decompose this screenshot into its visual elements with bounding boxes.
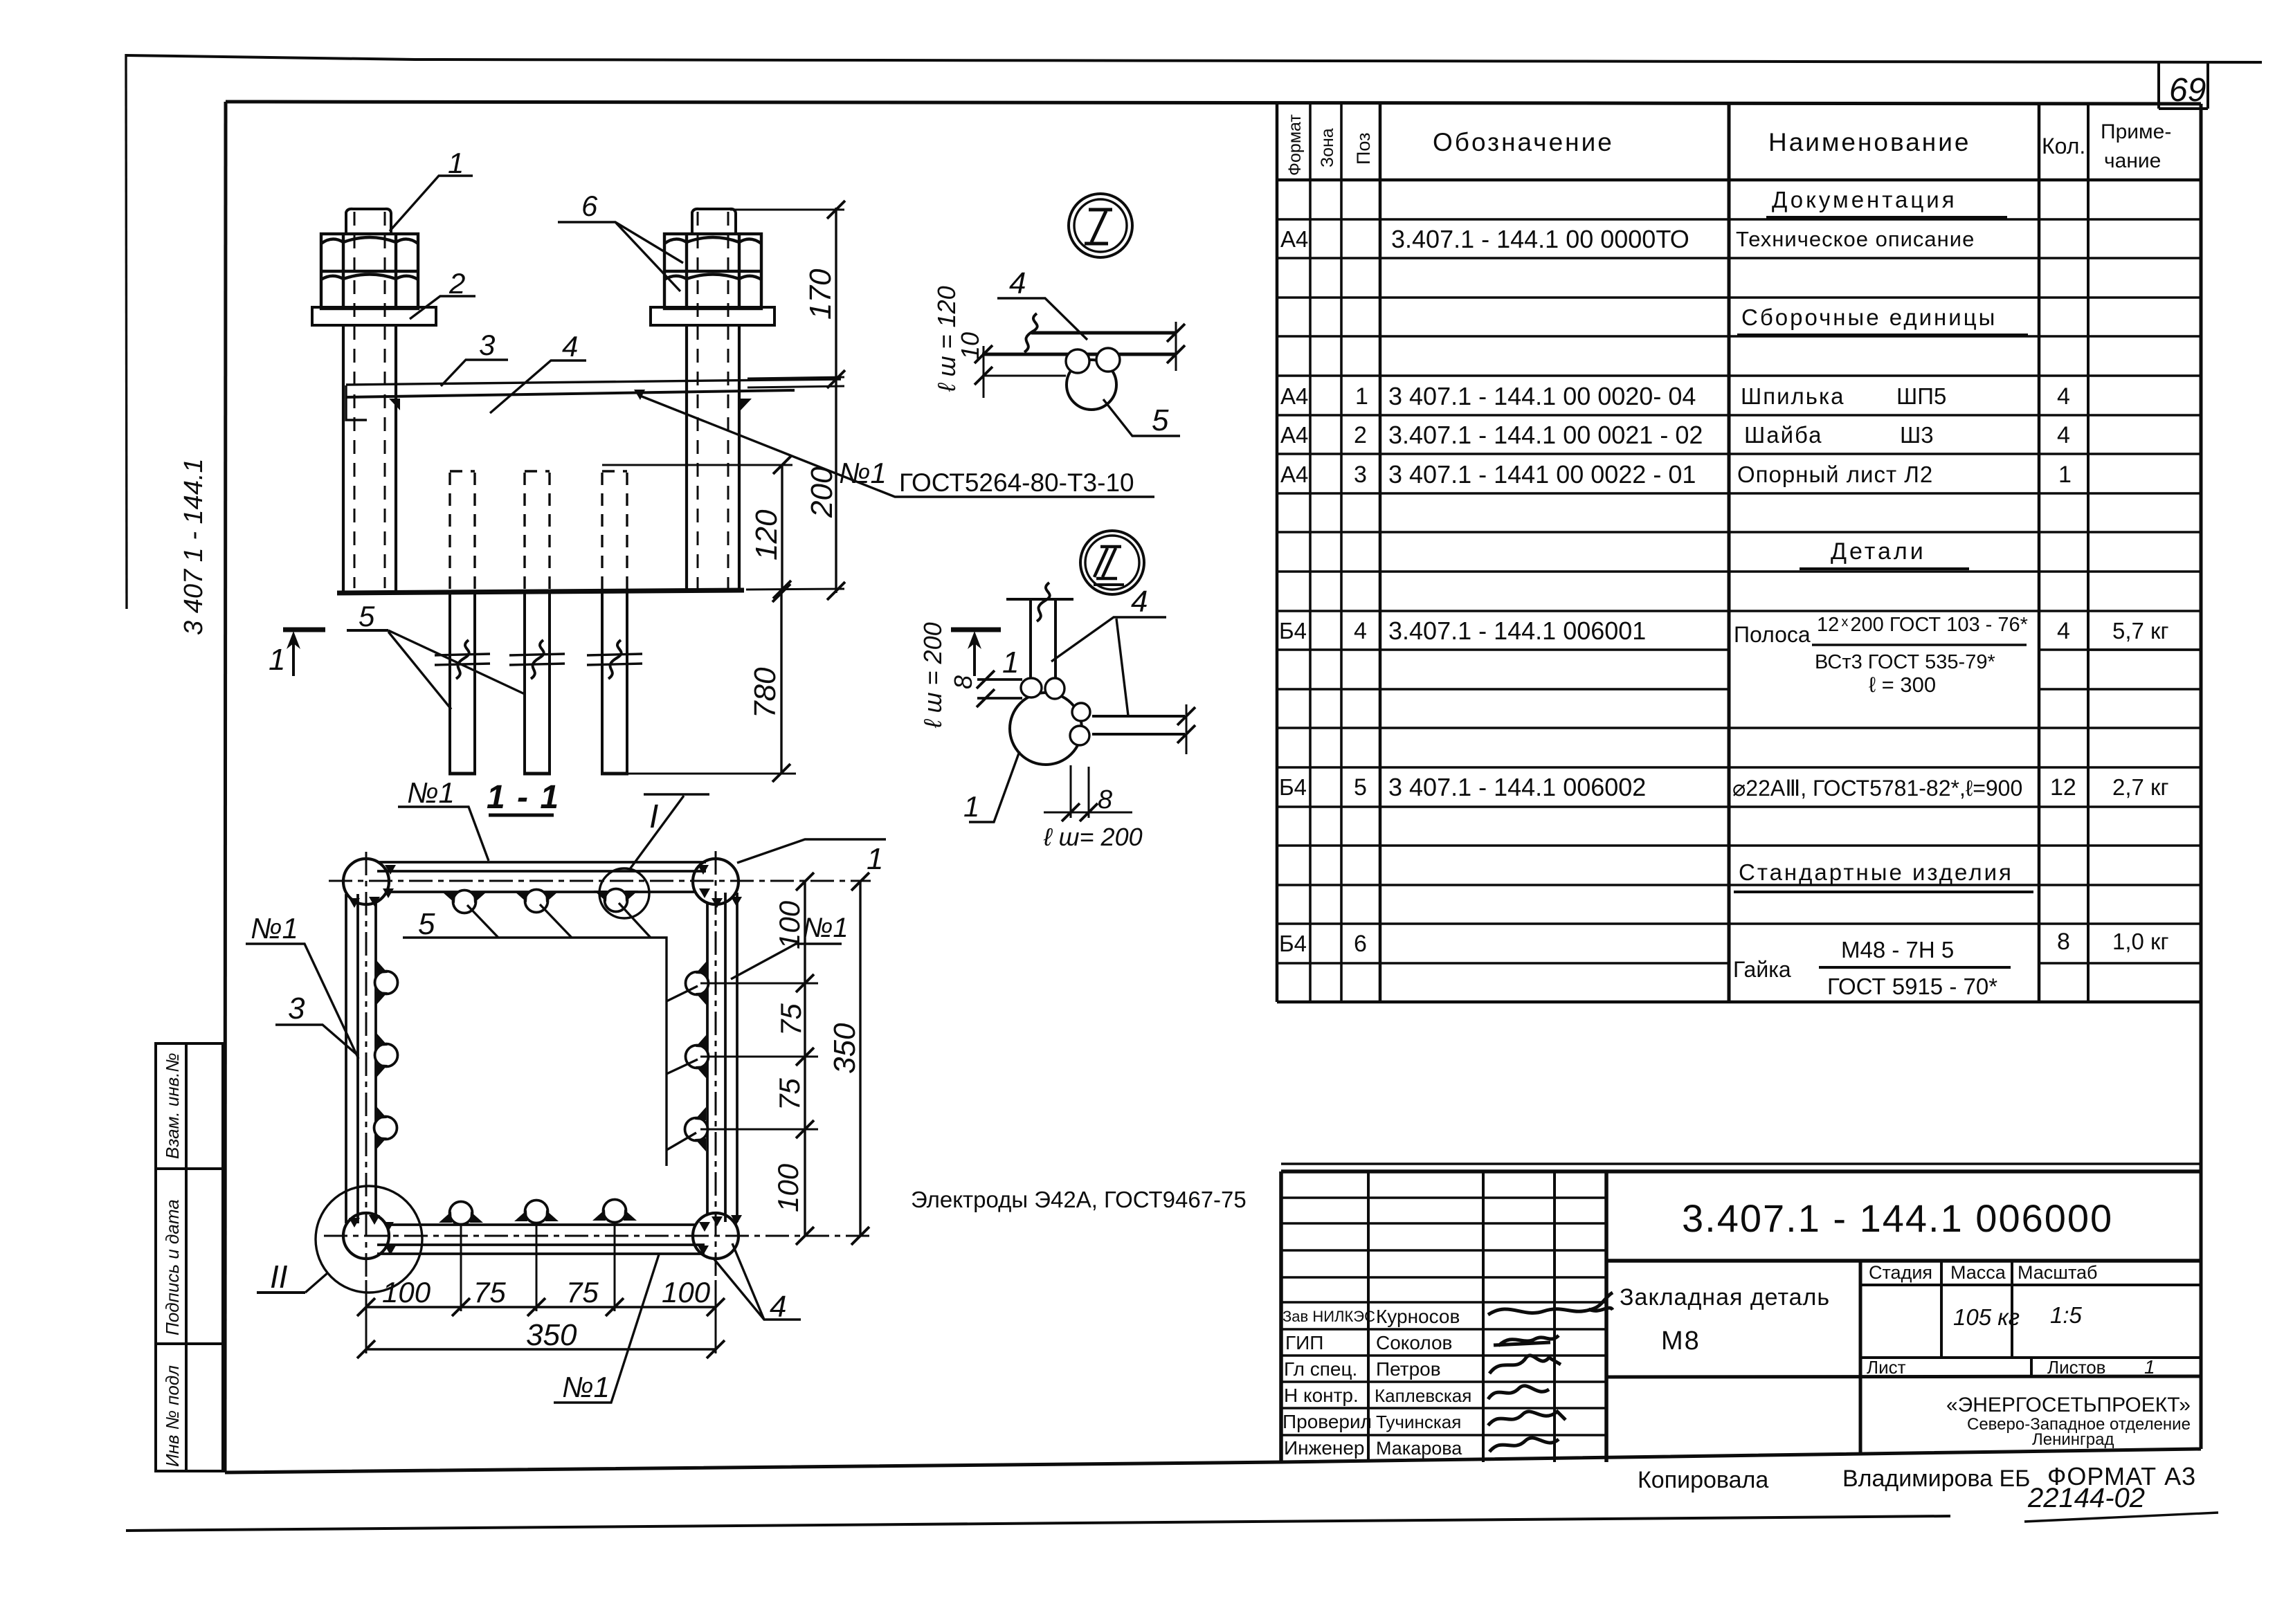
svg-text:Лист: Лист [1867, 1357, 1906, 1378]
svg-text:Н контр.: Н контр. [1284, 1385, 1359, 1406]
svg-text:1: 1 [1355, 383, 1368, 410]
detail II right strip [1092, 716, 1185, 734]
svg-text:Техническое описание: Техническое описание [1736, 227, 1975, 251]
svg-text:Электроды Э42А, ГОСТ9467-75: Электроды Э42А, ГОСТ9467-75 [911, 1187, 1247, 1212]
svg-text:II: II [270, 1259, 288, 1295]
detail II weld beads [1021, 678, 1090, 745]
svg-text:Копировала: Копировала [1638, 1467, 1768, 1493]
anchor circles plan left column [375, 960, 398, 1005]
ext line rod top level [602, 464, 792, 466]
svg-text:12: 12 [2050, 774, 2076, 801]
svg-text:I: I [649, 799, 658, 835]
svg-text:100: 100 [772, 1163, 804, 1212]
plan axes dash-dot [324, 851, 871, 1280]
svg-text:1:5: 1:5 [2050, 1302, 2083, 1328]
svg-text:Петров: Петров [1376, 1358, 1441, 1380]
svg-text:100: 100 [382, 1276, 431, 1308]
svg-text:чание: чание [2104, 149, 2161, 172]
svg-text:Ш3: Ш3 [1900, 422, 1934, 448]
anchor circles plan right column [686, 961, 709, 1005]
svg-text:75: 75 [473, 1276, 506, 1308]
svg-text:1: 1 [1002, 646, 1019, 679]
svg-text:1: 1 [2144, 1356, 2155, 1378]
detail circle II on plan [316, 1186, 422, 1293]
stud 2 shaft right [687, 325, 739, 592]
left strip (polosa) plan [346, 894, 376, 1223]
svg-text:5: 5 [359, 600, 375, 632]
anchor circles plan bottom row [439, 1202, 483, 1225]
svg-text:4: 4 [2057, 383, 2070, 410]
svg-text:Наименование: Наименование [1768, 128, 1971, 156]
detail I left extension [983, 346, 985, 398]
right dim extension lines [700, 983, 818, 1129]
stud 1 shaft left [343, 325, 396, 592]
svg-text:100: 100 [662, 1276, 711, 1308]
weld triangle under sheet at stud1 [389, 399, 400, 410]
anchor rod 2 below plate [523, 593, 551, 774]
svg-text:Шпилька: Шпилька [1741, 383, 1845, 409]
svg-text:3.407.1 - 144.1 00 0000ТО: 3.407.1 - 144.1 00 0000ТО [1391, 225, 1689, 253]
washer right (pos 2) [651, 307, 774, 325]
svg-text:3: 3 [479, 329, 495, 361]
svg-text:ГОСТ5264-80-Т3-10: ГОСТ5264-80-Т3-10 [899, 468, 1134, 497]
detail I rod circle [1067, 360, 1116, 410]
detail II top-left dim 8 lines [977, 679, 1022, 698]
svg-text:Шайба: Шайба [1744, 422, 1823, 448]
svg-text:75: 75 [773, 1078, 806, 1111]
svg-text:Взам. инв.№: Взам. инв.№ [162, 1052, 183, 1159]
corner stud circles [343, 859, 738, 1259]
svg-text:4: 4 [1354, 618, 1367, 644]
svg-text:75: 75 [774, 1003, 807, 1036]
detail I flag [630, 794, 709, 869]
title block outline [1281, 1164, 2201, 1462]
svg-text:Стандартные изделия: Стандартные изделия [1739, 859, 2013, 885]
svg-text:Б4: Б4 [1279, 774, 1307, 800]
svg-text:8: 8 [1098, 785, 1112, 814]
svg-text:6: 6 [1354, 931, 1367, 957]
svg-text:Масштаб: Масштаб [2018, 1262, 2098, 1283]
svg-text:Инженер: Инженер [1284, 1437, 1365, 1459]
svg-text:3.407.1 - 144.1 006001: 3.407.1 - 144.1 006001 [1388, 617, 1646, 645]
svg-text:5: 5 [1152, 403, 1169, 437]
dim column 100 75 75 100 right [804, 882, 806, 1236]
frame bottom bold line [337, 590, 744, 593]
ext lines sheet level [747, 377, 844, 378]
svg-text:А4: А4 [1280, 226, 1308, 252]
svg-text:ℓ ш= 200: ℓ ш= 200 [1043, 823, 1143, 851]
svg-text:«ЭНЕРГОСЕТЬПРОЕКТ»: «ЭНЕРГОСЕТЬПРОЕКТ» [1946, 1394, 2191, 1416]
svg-text:2,7 кг: 2,7 кг [2112, 774, 2169, 800]
weld triangle under sheet at stud2 [741, 399, 752, 410]
dim 350 right [859, 882, 861, 1236]
ext line stud top [730, 209, 844, 211]
signatures squiggles [1488, 1293, 1613, 1452]
svg-text:1: 1 [963, 790, 979, 823]
svg-text:200: 200 [805, 466, 839, 518]
svg-text:№1: №1 [803, 913, 849, 943]
svg-text:105 кг: 105 кг [1953, 1304, 2020, 1330]
outer page border left [126, 54, 127, 609]
svg-text:№1: №1 [839, 457, 887, 489]
svg-text:Тучинская: Тучинская [1376, 1412, 1461, 1432]
svg-text:Закладная деталь: Закладная деталь [1620, 1284, 1830, 1311]
top strip (polosa) plan [377, 862, 706, 892]
svg-text:ГИП: ГИП [1285, 1332, 1323, 1353]
svg-text:Масса: Масса [1950, 1262, 2006, 1283]
svg-text:Ленинград: Ленинград [2032, 1430, 2114, 1449]
sheet number box [2159, 62, 2208, 109]
svg-text:Поз: Поз [1353, 133, 1374, 165]
svg-text:Формат: Формат [1285, 114, 1305, 176]
svg-text:6: 6 [581, 190, 598, 222]
section mark 1 left [283, 628, 325, 632]
svg-text:1: 1 [2058, 462, 2072, 488]
svg-text:4: 4 [562, 330, 578, 363]
svg-text:Обозначение: Обозначение [1433, 128, 1614, 156]
right strip (polosa) plan [707, 893, 737, 1222]
outer page border top [126, 55, 2262, 62]
DETAIL II mark circle [1080, 531, 1144, 594]
stud 1 thread dashed [354, 212, 385, 588]
svg-text:2: 2 [1354, 422, 1367, 448]
corner weld marks [349, 865, 742, 1255]
svg-text:М48 - 7Н 5: М48 - 7Н 5 [1841, 937, 1954, 962]
anchor rod 1 hidden part [450, 471, 475, 590]
detail I right extension [1175, 322, 1177, 371]
support sheet (pos 3) top line [346, 379, 841, 385]
svg-text:Полоса: Полоса [1734, 622, 1811, 647]
anchor rod 3 below plate [601, 593, 628, 774]
svg-text:4: 4 [2057, 618, 2070, 644]
bottom dim extension lines [366, 1222, 716, 1353]
detail II stud circle [1010, 693, 1082, 765]
anchor circles plan top row [442, 891, 487, 913]
detail II vertical strip [1006, 599, 1073, 685]
svg-text:75: 75 [566, 1276, 599, 1308]
dim row 100 75 75 100 [366, 1306, 716, 1308]
ext line rod ends [628, 773, 796, 775]
specification table grid [1277, 103, 2201, 1002]
svg-text:1,0 кг: 1,0 кг [2112, 929, 2169, 954]
outer page border bottom [126, 1516, 1950, 1531]
svg-text:3 407 1 - 144.1: 3 407 1 - 144.1 [179, 458, 208, 635]
detail I strip bottom line [982, 353, 1177, 356]
svg-text:170: 170 [804, 268, 837, 320]
break mark rod 3 [587, 654, 642, 665]
svg-text:Опорный лист Л2: Опорный лист Л2 [1737, 462, 1933, 487]
svg-text:10: 10 [956, 332, 984, 360]
svg-text:А4: А4 [1280, 422, 1308, 448]
svg-text:Макарова: Макарова [1376, 1438, 1462, 1459]
svg-text:100: 100 [773, 900, 806, 949]
svg-text:1: 1 [867, 842, 883, 876]
svg-text:3: 3 [288, 992, 305, 1025]
dim 120 line [781, 465, 783, 591]
svg-text:Гл спец.: Гл спец. [1284, 1358, 1357, 1380]
svg-text:4: 4 [1131, 585, 1148, 619]
detail I lower thin line [982, 375, 1066, 377]
stud 1 (left) cap [346, 209, 391, 234]
break mark rod 1 [435, 654, 490, 665]
svg-text:8: 8 [2057, 929, 2070, 955]
svg-text:Стадия: Стадия [1869, 1262, 1932, 1283]
svg-text:№1: №1 [251, 912, 298, 945]
svg-text:Каплевская: Каплевская [1375, 1385, 1471, 1406]
svg-text:120: 120 [750, 509, 783, 560]
svg-text:1 - 1: 1 - 1 [487, 779, 560, 816]
svg-text:3 407.1 - 144.1 00 0020- 04: 3 407.1 - 144.1 00 0020- 04 [1388, 382, 1696, 410]
detail I strip top line with weld seam [1031, 331, 1177, 335]
svg-text:Проверил: Проверил [1283, 1411, 1372, 1432]
svg-text:Листов: Листов [2047, 1357, 2105, 1378]
svg-text:350: 350 [526, 1318, 577, 1352]
weld point of leader N1 [634, 390, 645, 400]
ext line frame bottom [746, 589, 844, 590]
svg-text:22144-02: 22144-02 [2027, 1483, 2145, 1513]
svg-text:5: 5 [1354, 774, 1367, 801]
dim 350 bottom [366, 1348, 716, 1350]
detail II bottom dim 8 [1044, 765, 1132, 818]
stud 2 thread dashed [698, 212, 728, 588]
svg-text:1: 1 [448, 147, 464, 179]
left margin stamp boxes [156, 1043, 223, 1471]
svg-text:2: 2 [448, 267, 465, 300]
bottom strip (polosa) plan [377, 1225, 705, 1254]
leader N1 GOST weld note [640, 396, 1154, 497]
svg-text:Зав НИЛКЭС: Зав НИЛКЭС [1283, 1308, 1375, 1325]
svg-text:5: 5 [418, 907, 435, 941]
svg-text:Зона: Зона [1318, 128, 1337, 167]
stud 2 (right) cap [692, 209, 736, 234]
svg-text:А4: А4 [1280, 462, 1308, 487]
svg-text:ГОСТ 5915 - 70*: ГОСТ 5915 - 70* [1827, 974, 1997, 999]
svg-text:№1: №1 [562, 1371, 610, 1403]
svg-text:Приме-: Приме- [2101, 120, 2171, 143]
nut pair M48 left (pos 6) [321, 234, 418, 309]
svg-text:3: 3 [1354, 462, 1367, 488]
break mark rod 2 [509, 654, 565, 665]
anchor rod 3 hidden part [602, 471, 627, 590]
svg-text:5,7 кг: 5,7 кг [2112, 618, 2169, 644]
svg-text:8: 8 [949, 675, 977, 689]
svg-text:4: 4 [1009, 266, 1026, 300]
svg-text:ШП5: ШП5 [1896, 383, 1946, 409]
svg-text:Курносов: Курносов [1376, 1306, 1460, 1327]
svg-text:3 407.1 - 144.1 006002: 3 407.1 - 144.1 006002 [1388, 773, 1646, 801]
svg-text:А4: А4 [1280, 383, 1308, 409]
support sheet bottom line [346, 390, 795, 397]
svg-text:Владимирова ЕБ: Владимирова ЕБ [1842, 1466, 2030, 1492]
support sheet left edge [346, 385, 367, 420]
svg-text:Детали: Детали [1831, 538, 1926, 565]
svg-text:780: 780 [748, 667, 782, 718]
anchor rod 2 hidden part [525, 471, 550, 590]
svg-text:1: 1 [269, 643, 285, 677]
svg-text:ℓ ш = 200: ℓ ш = 200 [918, 622, 947, 729]
washer left (pos 2) [312, 307, 436, 325]
dim 170 / 200 line [835, 208, 837, 593]
svg-text:ℓ = 300: ℓ = 300 [1869, 673, 1936, 697]
svg-text:⌀22АⅢ, ГОСТ5781-82*,ℓ=900: ⌀22АⅢ, ГОСТ5781-82*,ℓ=900 [1732, 776, 2022, 801]
svg-text:4: 4 [2057, 422, 2070, 448]
svg-text:ВСт3 ГОСТ 535-79*: ВСт3 ГОСТ 535-79* [1815, 651, 1995, 673]
svg-text:3 407.1 - 1441 00 0022 - 0: 3 407.1 - 1441 00 0022 - 01 [1388, 460, 1696, 489]
svg-text:Документация: Документация [1772, 187, 1957, 212]
svg-text:350: 350 [828, 1023, 862, 1074]
nut pair M48 right (pos 6) [664, 234, 761, 309]
svg-text:Соколов: Соколов [1376, 1332, 1452, 1353]
svg-text:Кол.: Кол. [2042, 134, 2085, 158]
svg-text:Гайка: Гайка [1733, 957, 1791, 982]
svg-text:Сборочные единицы: Сборочные единицы [1741, 304, 1997, 330]
svg-text:М8: М8 [1661, 1326, 1701, 1356]
section mark 1 right [951, 628, 1001, 632]
svg-text:Б4: Б4 [1279, 931, 1307, 956]
svg-text:3.407.1 - 144.1 006000: 3.407.1 - 144.1 006000 [1682, 1196, 2113, 1240]
svg-text:Подпись и дата: Подпись и дата [162, 1199, 183, 1335]
svg-text:3.407.1 - 144.1 00 0021 - 0: 3.407.1 - 144.1 00 0021 - 02 [1388, 421, 1703, 449]
dim 780 line [780, 592, 782, 774]
drawing frame [225, 102, 2201, 1472]
svg-text:№1: №1 [407, 776, 455, 809]
detail circle I on plan [599, 868, 649, 918]
svg-text:12 ͯ 200 ГОСТ 103 - 76*: 12 ͯ 200 ГОСТ 103 - 76* [1817, 614, 2028, 636]
detail I weld beads [1066, 349, 1089, 373]
svg-text:Инв № подл: Инв № подл [162, 1365, 183, 1467]
anchor rod 1 below plate [448, 593, 476, 774]
DETAIL I mark circle [1069, 194, 1132, 257]
svg-text:Б4: Б4 [1279, 618, 1307, 644]
